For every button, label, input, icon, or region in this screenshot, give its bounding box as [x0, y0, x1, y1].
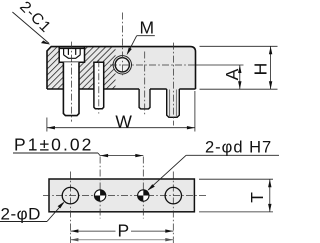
svg-text:T: T — [247, 192, 267, 203]
svg-text:2-φD: 2-φD — [1, 204, 41, 223]
svg-text:H: H — [250, 63, 270, 76]
svg-text:2-φd H7: 2-φd H7 — [205, 138, 272, 156]
svg-text:P1±0.02: P1±0.02 — [14, 135, 93, 155]
svg-text:W: W — [115, 111, 132, 131]
svg-text:2-C1: 2-C1 — [16, 0, 54, 36]
svg-text:P: P — [117, 220, 129, 240]
svg-text:M: M — [140, 17, 155, 37]
svg-text:A: A — [222, 68, 242, 80]
